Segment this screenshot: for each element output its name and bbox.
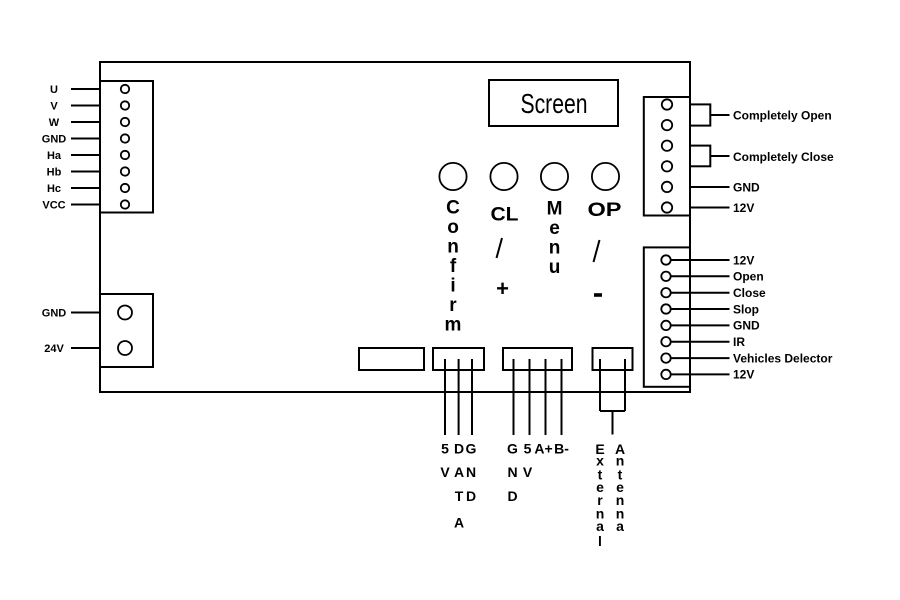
- svg-text:G: G: [466, 441, 477, 457]
- svg-text:V: V: [440, 464, 450, 480]
- svg-text:GND: GND: [42, 308, 67, 320]
- svg-text:n: n: [549, 238, 561, 259]
- svg-text:r: r: [449, 295, 457, 316]
- svg-text:+: +: [496, 276, 509, 301]
- svg-text:Ha: Ha: [47, 150, 62, 162]
- svg-text:e: e: [549, 218, 560, 239]
- svg-text:VCC: VCC: [42, 200, 65, 212]
- svg-text:U: U: [50, 84, 58, 96]
- svg-text:T: T: [455, 488, 464, 504]
- svg-text:f: f: [450, 256, 457, 277]
- svg-text:V: V: [523, 464, 533, 480]
- svg-text:Completely Open: Completely Open: [733, 109, 832, 123]
- svg-text:5: 5: [524, 441, 532, 457]
- svg-text:N: N: [466, 464, 476, 480]
- svg-text:V: V: [50, 101, 58, 113]
- svg-text:N: N: [507, 464, 517, 480]
- svg-text:D: D: [454, 441, 464, 457]
- svg-text:m: m: [445, 315, 462, 336]
- svg-text:Completely Close: Completely Close: [733, 150, 834, 164]
- svg-text:W: W: [49, 117, 60, 129]
- svg-text:A: A: [454, 464, 464, 480]
- svg-text:Screen: Screen: [521, 88, 588, 119]
- svg-text:12V: 12V: [733, 201, 754, 215]
- svg-text:a: a: [616, 518, 624, 534]
- svg-text:u: u: [549, 257, 561, 278]
- svg-text:D: D: [466, 488, 476, 504]
- svg-text:i: i: [450, 276, 455, 297]
- svg-text:12V: 12V: [733, 368, 754, 382]
- svg-text:Close: Close: [733, 286, 766, 300]
- svg-text:5: 5: [441, 441, 449, 457]
- svg-text:24V: 24V: [44, 343, 64, 355]
- svg-text:Hc: Hc: [47, 183, 61, 195]
- svg-text:G: G: [507, 441, 518, 457]
- svg-text:D: D: [507, 488, 517, 504]
- svg-text:Open: Open: [733, 270, 764, 284]
- svg-text:IR: IR: [733, 335, 745, 349]
- svg-text:C: C: [446, 198, 460, 219]
- svg-text:GND: GND: [733, 180, 760, 194]
- svg-text:o: o: [447, 217, 459, 238]
- svg-text:Slop: Slop: [733, 302, 759, 316]
- svg-text:A+: A+: [534, 441, 552, 457]
- svg-text:CL: CL: [491, 205, 519, 226]
- svg-text:Vehicles Delector: Vehicles Delector: [733, 351, 833, 365]
- svg-text:n: n: [447, 237, 459, 258]
- svg-text:GND: GND: [733, 319, 760, 333]
- svg-text:12V: 12V: [733, 253, 754, 267]
- svg-text:GND: GND: [42, 134, 67, 146]
- svg-text:l: l: [598, 533, 602, 549]
- svg-text:B-: B-: [554, 441, 569, 457]
- svg-text:a: a: [596, 518, 604, 534]
- svg-text:M: M: [547, 199, 563, 220]
- svg-text:Hb: Hb: [47, 167, 62, 179]
- svg-text:A: A: [454, 515, 464, 531]
- svg-text:OP: OP: [588, 200, 622, 221]
